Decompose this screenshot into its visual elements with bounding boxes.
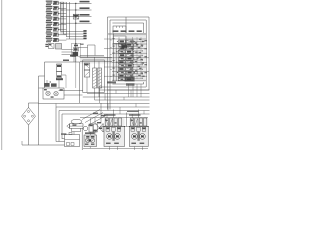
oil cooler hatched <box>93 68 97 88</box>
return line 8 <box>80 117 148 119</box>
stub wire S1 <box>66 30 87 32</box>
wire motor M2 riser 2 <box>131 114 133 118</box>
pilot gray block <box>56 44 62 50</box>
pump P1 <box>46 91 50 95</box>
diagonal feed 3 <box>82 110 100 120</box>
bus wire B2 <box>62 2 64 34</box>
labelled wire W3 <box>61 14 92 17</box>
bus text a <box>93 113 98 114</box>
motor drop d <box>141 147 143 151</box>
filter hatch 2 <box>98 73 102 75</box>
control valve block wash <box>112 33 146 82</box>
valve block scatter marks <box>135 39 145 77</box>
valve block row wire 3 <box>112 48 145 50</box>
wire drop left 4 <box>61 114 63 139</box>
pump block box <box>43 88 64 99</box>
valve block risers <box>119 37 141 79</box>
wire manifold right a <box>80 55 104 57</box>
pump unit left upper edge <box>44 62 46 88</box>
valve block row wire 7 <box>112 66 146 68</box>
wire motor M1 riser <box>113 110 115 119</box>
enclosure E3 <box>112 23 143 84</box>
wire V76 inside pump unit <box>75 62 77 88</box>
hydraulic tank T <box>65 133 80 147</box>
wire stub PV4 <box>58 18 66 20</box>
bypass valve BV <box>84 63 90 77</box>
wire V76 into pump unit <box>75 58 77 62</box>
wire manifold right b <box>80 57 115 59</box>
pilot valve group PV2 <box>46 6 59 11</box>
bus riser d <box>130 90 132 97</box>
dark component below box2 <box>122 44 128 48</box>
pilot valve group PV4 <box>46 16 59 21</box>
wire SV down a <box>90 132 92 135</box>
wire into tank a <box>56 141 65 143</box>
bus wire B2 turn <box>63 33 66 35</box>
wire drop left 3 <box>58 111 60 142</box>
valve block bottom drops <box>129 84 142 97</box>
stub wire S4 <box>66 38 87 40</box>
pilot valve group PV7 <box>46 32 59 37</box>
stub wire S2 <box>66 33 87 35</box>
wire stub PV3 <box>58 13 66 15</box>
return line 0 <box>99 89 150 91</box>
inner white box 2 <box>114 36 127 43</box>
corner box near filter <box>88 45 96 58</box>
cooler hatch 3 <box>93 76 97 78</box>
return line 4 <box>39 103 150 105</box>
motor top line <box>100 126 148 128</box>
valve block row wire 1 <box>112 38 146 40</box>
wire gray block out 2 <box>62 51 73 53</box>
bus shading band <box>60 2 64 35</box>
pump pipe 1 <box>59 90 83 92</box>
regulator RV1 <box>57 55 77 79</box>
valve block row wire 9 <box>112 75 147 77</box>
bus riser a <box>55 104 57 108</box>
filter hatch 6 <box>98 85 102 87</box>
pilot end group with white box <box>45 44 54 49</box>
pilot valve group PV5 <box>46 22 59 27</box>
pump branch wire <box>39 87 44 89</box>
travel motor group M2 <box>127 111 149 147</box>
wire gray block out 3 <box>62 54 73 56</box>
bus wire B1 <box>60 2 62 32</box>
pump P2 <box>54 91 58 95</box>
page edge line <box>1 0 2 150</box>
valve block row wire 2 <box>112 43 147 45</box>
wire y61 <box>80 61 115 63</box>
wire stub PV8 <box>58 39 66 41</box>
bus label blob <box>107 81 116 83</box>
diagonal feed 1 <box>85 113 103 123</box>
return line 6 <box>59 110 150 112</box>
wire cooler down <box>94 88 96 100</box>
wire regulator side pipe down <box>65 75 67 88</box>
wire regulator down <box>58 79 60 88</box>
return line 2 <box>83 96 150 98</box>
wire motor M2 riser <box>138 110 140 119</box>
valve module chain <box>116 40 137 81</box>
control valve body verticals <box>114 34 117 82</box>
pump unit outer corner <box>39 76 45 145</box>
wire gray block out 1 <box>62 49 73 51</box>
valve block row wire 5 <box>112 57 149 59</box>
pilot filter circle <box>83 126 87 130</box>
wire stub PV6 <box>58 29 66 31</box>
bus riser h <box>135 104 137 108</box>
pump pipe 2 <box>64 94 83 96</box>
enclosure E2 <box>110 20 146 110</box>
wire diamond top <box>28 103 30 108</box>
bus riser f <box>115 90 117 94</box>
long vertical wire V76 <box>75 3 77 62</box>
motor drop c <box>133 147 135 151</box>
bus riser e <box>104 94 106 101</box>
blob below cluster <box>126 83 135 86</box>
wire motor M1 riser 2 <box>106 114 108 118</box>
bus text b <box>101 115 105 116</box>
solenoid valve row SV <box>89 122 108 132</box>
labelled wire W2 <box>61 7 92 10</box>
wire drop left 2 <box>55 107 57 142</box>
center swivel joint <box>67 119 83 131</box>
filter hatch 1 <box>98 70 102 72</box>
bus wire B1 turn <box>61 31 66 33</box>
pilot valve group PV6 <box>46 27 59 32</box>
connector symbol on V76 <box>73 14 79 19</box>
pump label <box>56 78 63 80</box>
enclosure bottom edge 2 <box>99 86 146 88</box>
valve block right edge marks <box>144 40 147 73</box>
pump unit top edge <box>45 61 80 63</box>
return line 1 <box>87 93 150 95</box>
drain stub <box>21 141 23 145</box>
cooler hatch 4 <box>93 79 97 81</box>
bus riser b <box>107 104 109 111</box>
pilot valve group PV1 <box>46 1 59 6</box>
bus wash band mid <box>80 57 114 63</box>
valve block row wire 10 <box>112 79 146 81</box>
pump block inner marks <box>44 89 63 98</box>
motor drop a <box>108 147 110 151</box>
filter hatch 4 <box>98 79 102 81</box>
cooler hatch 2 <box>93 73 97 75</box>
enclosure bottom edge 3 <box>112 83 143 85</box>
filter hatch 3 <box>98 76 102 78</box>
labelled wire W1 <box>61 1 92 4</box>
diagonal feed 2 <box>88 116 106 126</box>
wire through label box <box>125 17 127 33</box>
wire above cooler <box>80 56 105 58</box>
oil filter hatched <box>98 68 102 88</box>
wire below motors <box>83 147 148 149</box>
return line 7 <box>62 113 150 115</box>
valve block gutter marks <box>111 38 115 77</box>
wire riser x101 <box>100 103 102 124</box>
enclosure bottom edge 1 <box>108 89 150 91</box>
filter-cooler enclosure <box>83 60 105 93</box>
bus wire B4 <box>68 2 70 39</box>
travel motor group M1 <box>103 114 125 146</box>
return line 3 <box>95 99 150 101</box>
wire stub PV7 <box>58 34 66 36</box>
pump unit right edge <box>79 62 81 103</box>
cooler hatch 1 <box>93 70 97 72</box>
valve block left stubs <box>104 39 112 76</box>
wire swivel down <box>81 128 83 150</box>
wire SV riser b <box>94 118 96 124</box>
wire swivel to tank <box>73 132 75 135</box>
bottom drain line <box>22 144 65 146</box>
bus wire B3 <box>65 2 67 37</box>
pilot valve group PV8 <box>46 38 59 43</box>
wire diamond bottom <box>28 125 30 145</box>
enclosure E1 <box>108 17 150 110</box>
wire manifold drop <box>73 53 75 62</box>
bus riser g <box>123 97 125 100</box>
pump top marks <box>44 80 56 87</box>
chain bottom dark blob <box>125 77 135 82</box>
valve block row wire 8 <box>112 71 149 73</box>
wire bypass down <box>86 77 88 93</box>
motor drop b <box>116 147 118 151</box>
wire corner x99 <box>98 62 100 98</box>
return line 5 <box>56 106 150 108</box>
cooler hatch 5 <box>93 82 97 84</box>
check valve bridge diamond <box>22 108 36 126</box>
bus riser i <box>143 111 145 115</box>
labelled wire W4 <box>61 21 92 24</box>
bus riser c <box>119 107 121 114</box>
cooler hatch 6 <box>93 85 97 87</box>
inner label box <box>113 26 126 33</box>
valve block row wire 6 <box>112 61 147 63</box>
wire filter down <box>99 88 101 103</box>
wire diamond to pump drop <box>29 102 39 104</box>
wire stub PV1 <box>58 2 66 4</box>
wire stub PV2 <box>58 7 66 9</box>
pilot valve group PV3 <box>46 11 59 16</box>
wire stub PV5 <box>58 23 66 25</box>
stub wire S3 <box>66 35 87 37</box>
wire into tank b <box>62 138 65 140</box>
travel motor group M0 <box>84 132 97 148</box>
valve block row wire 4 <box>112 52 147 54</box>
tank top marks <box>61 133 66 135</box>
junction manifold J1 <box>72 43 88 57</box>
valve block short rows <box>133 41 143 79</box>
control valve label band <box>108 30 146 34</box>
wire between motors <box>126 113 128 127</box>
wire SV riser a <box>90 118 92 124</box>
filter hatch 5 <box>98 82 102 84</box>
wire SV down b <box>94 132 96 135</box>
wire cooler top <box>94 57 96 68</box>
